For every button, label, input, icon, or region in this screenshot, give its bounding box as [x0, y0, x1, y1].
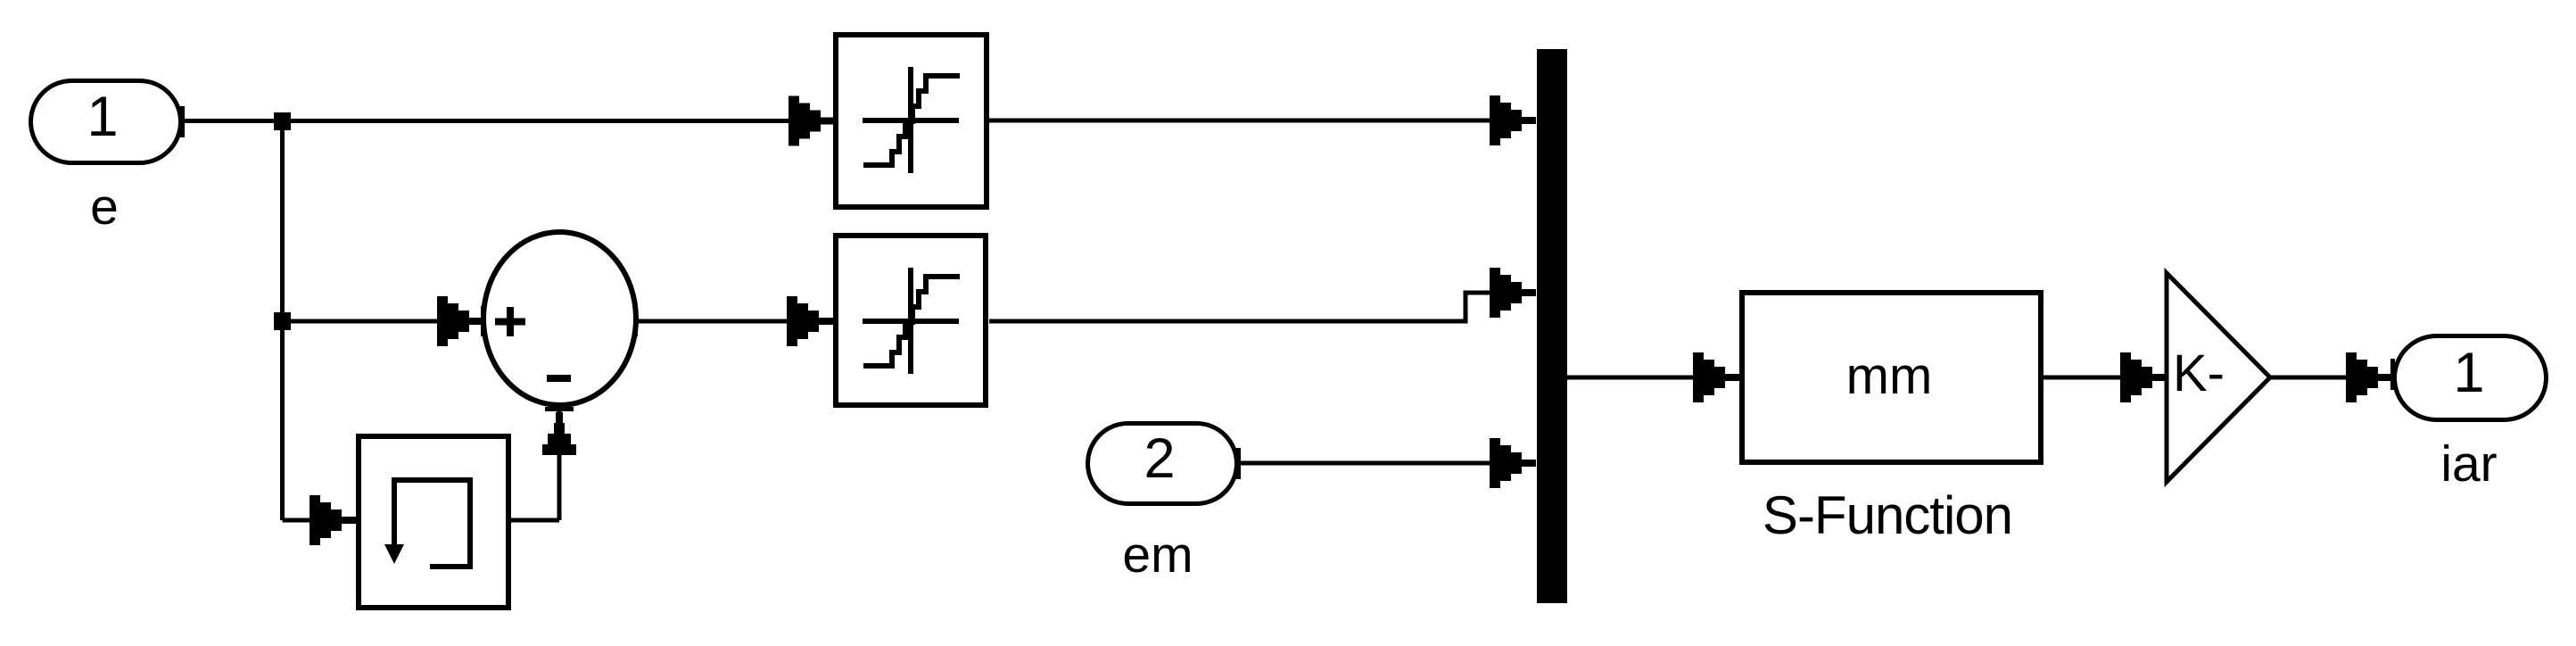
inport 2 port tick	[1236, 448, 1241, 479]
wire: memory output up into sum - input	[542, 412, 576, 520]
outport port tick	[2390, 359, 2395, 390]
svg-text:1: 1	[2453, 342, 2484, 404]
wire: vertical branch from J1 down	[280, 121, 285, 521]
inport 1 (e)	[31, 81, 181, 163]
saturation block 1	[836, 35, 987, 207]
wire: saturation1 to mux input 1	[989, 95, 1536, 145]
svg-text:S-Function: S-Function	[1763, 485, 2012, 545]
gain block K-	[2167, 273, 2270, 482]
svg-text:iar: iar	[2440, 435, 2497, 493]
wire: memory output to corner	[511, 518, 559, 523]
wire: port e to saturation1	[183, 96, 835, 146]
sum right port tick	[633, 306, 638, 336]
svg-text:e: e	[90, 178, 119, 236]
wire: J2 to sum + input	[282, 296, 485, 346]
wire: sum output to saturation2	[636, 296, 833, 346]
wire: mux output to S-Function	[1567, 352, 1739, 402]
node junction J2	[274, 312, 291, 330]
wire: branch down to memory input	[283, 495, 357, 545]
inport 1 port tick	[180, 106, 185, 137]
saturation block 2	[836, 236, 986, 405]
svg-text:mm: mm	[1846, 347, 1933, 405]
wire: gain to outport	[2270, 352, 2392, 402]
wire: port em to mux input 3	[1239, 438, 1536, 488]
outport 1 (iar)	[2395, 336, 2547, 420]
sum block (circle with + and -)	[483, 232, 636, 405]
inport 2 (em)	[1088, 424, 1237, 504]
node junction J1	[274, 112, 291, 130]
svg-text:1: 1	[87, 86, 118, 148]
sum bottom port tick	[545, 403, 574, 412]
svg-text:em: em	[1122, 526, 1193, 584]
S-Function block mm	[1742, 293, 2041, 462]
svg-text:2: 2	[1144, 427, 1175, 490]
wire: S-Function to gain	[2043, 352, 2167, 402]
mux bar	[1537, 49, 1567, 603]
wire: saturation2 to mux input 2 (with step up)	[989, 268, 1536, 321]
svg-text:K-: K-	[2173, 344, 2225, 402]
memory block	[359, 436, 508, 608]
